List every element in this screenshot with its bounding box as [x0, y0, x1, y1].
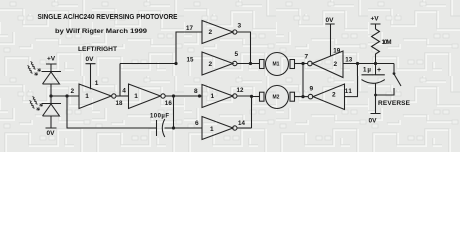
svg-text:2: 2: [71, 88, 75, 95]
wire D2 to 0V: [46, 116, 57, 128]
svg-text:8: 8: [194, 88, 198, 95]
node: cap/gateD tie: [172, 126, 175, 129]
wire +V to resistor: [371, 24, 381, 29]
feedback down wire from node 2: [67, 96, 156, 128]
svg-text:12: 12: [237, 87, 245, 94]
svg-text:10M: 10M: [382, 39, 392, 46]
node: switch contact: [393, 72, 396, 75]
light arrow pair at D1: [28, 62, 41, 76]
wire cap to gate D input: [165, 127, 203, 129]
svg-text:2: 2: [332, 92, 336, 99]
node: M2 tap: [250, 95, 253, 98]
bubble gate D: [233, 126, 237, 130]
svg-text:+: +: [377, 67, 381, 74]
inverter gate E (pins 13,7) left-pointing: [312, 51, 343, 78]
capacitor 100uF curved plate: [162, 119, 165, 137]
svg-text:2: 2: [209, 29, 213, 36]
light arrow pair at D2: [30, 97, 43, 111]
node: RC tie: [374, 62, 377, 65]
node: photodiode junction: [49, 94, 52, 97]
svg-text:4: 4: [122, 88, 126, 95]
inverter gate1 (pins 2,18): [79, 84, 111, 109]
wire node2 to gate1 input: [51, 95, 79, 97]
wire 14 up to M2 row: [237, 127, 251, 129]
svg-text:15: 15: [187, 57, 195, 64]
node: 15/17 tie: [174, 62, 177, 65]
junction dots: [49, 62, 395, 130]
svg-text:1: 1: [211, 93, 215, 100]
svg-text:17: 17: [186, 25, 194, 32]
svg-text:11: 11: [345, 88, 353, 95]
motor M1 body: [266, 53, 289, 76]
inverter gate F (pins 11,9) left-pointing: [313, 84, 345, 110]
svg-text:18: 18: [116, 100, 124, 107]
svg-text:0V: 0V: [369, 117, 378, 124]
svg-text:1: 1: [95, 80, 99, 87]
wire 13 from gate E: [343, 63, 394, 65]
svg-text:14: 14: [238, 120, 246, 127]
bubble gate2 output: [161, 94, 165, 98]
svg-text:5: 5: [235, 51, 239, 58]
svg-text:16: 16: [165, 100, 173, 107]
wire cap to 0V tick: [371, 83, 381, 113]
node: M1 common: [301, 62, 304, 65]
svg-text:REVERSE: REVERSE: [378, 100, 411, 107]
bubble gate1 output: [112, 94, 116, 98]
svg-text:7: 7: [305, 54, 309, 61]
svg-text:0V: 0V: [86, 56, 95, 63]
wire 0V to pin 19 enable: [325, 24, 334, 57]
node: gate B output / M1: [249, 62, 252, 65]
node: switch bottom / 0V: [374, 94, 377, 97]
capacitor 1u plus plate: [362, 64, 385, 75]
svg-text:+V: +V: [371, 16, 380, 23]
switch lever: [394, 74, 401, 86]
bubble gate B: [233, 61, 237, 65]
svg-text:13: 13: [345, 56, 353, 63]
svg-text:1µ: 1µ: [363, 67, 371, 74]
svg-text:2: 2: [334, 61, 338, 68]
svg-text:1: 1: [134, 93, 138, 100]
svg-text:1: 1: [210, 126, 214, 133]
node: feedback tap at pin2: [65, 94, 68, 97]
inverter gate B (pins 15,5): [202, 52, 233, 75]
svg-text:0V: 0V: [47, 130, 56, 137]
svg-text:1: 1: [85, 93, 89, 100]
svg-text:100µF: 100µF: [150, 114, 169, 120]
wire M2 to gate F bubble: [295, 96, 309, 98]
wire 3 down to M1 row: [237, 32, 251, 64]
svg-text:by Wilf Rigter March 1999: by Wilf Rigter March 1999: [55, 28, 147, 35]
vertical tie between motor commons x=305: [302, 64, 304, 97]
switch bottom wire: [376, 88, 395, 95]
svg-text:6: 6: [195, 120, 199, 127]
svg-text:M1: M1: [273, 62, 280, 68]
inverter gate A (pins 17,3): [202, 21, 233, 44]
svg-text:+V: +V: [47, 55, 56, 62]
svg-text:SINGLE AC/HC240 REVERSING PHOT: SINGLE AC/HC240 REVERSING PHOTOVORE: [38, 14, 178, 21]
svg-text:9: 9: [310, 86, 314, 93]
bubble gate F: [308, 94, 313, 99]
resistor 10M zigzag: [372, 29, 380, 64]
feedback tap vertical x=120 up to y63.5: [120, 64, 176, 97]
inverter gate D (pins 6,14): [202, 117, 233, 140]
wire 16 node to gate C input: [165, 95, 202, 97]
svg-text:2: 2: [209, 61, 213, 68]
inverter gate2 (pins 4,16): [129, 84, 161, 109]
motor M1 right lug: [290, 60, 295, 69]
switch reverse: top stub: [393, 64, 395, 73]
node: M2 common: [301, 95, 304, 98]
wire 5 to M1: [237, 63, 260, 65]
wire 18 to gate2 input: [116, 95, 128, 97]
photodiode D1: [42, 72, 62, 85]
motor M2 right lug: [290, 92, 295, 101]
wire D1 to junction: [50, 84, 52, 104]
node: gate C input: [198, 94, 201, 97]
node: 11/13 tie: [356, 62, 359, 65]
node: 16/cap tie: [172, 94, 175, 97]
bubble gate C: [233, 94, 237, 98]
motor M2 left lug: [260, 92, 265, 101]
wire M1 to gate E bubble: [295, 63, 308, 65]
wire M2 tap: [252, 96, 260, 98]
photodiode D2: [42, 104, 62, 117]
svg-text:19: 19: [333, 48, 341, 55]
inverter gate C (pins 8,12): [202, 85, 233, 108]
svg-text:M2: M2: [273, 95, 280, 101]
motor M1 left lug: [260, 60, 265, 69]
bubble gate A: [233, 30, 237, 34]
wire 12 down to M2 row: [237, 96, 251, 128]
gate A input wires 17: [176, 32, 202, 64]
wire 0V to pin1 enable: [86, 64, 96, 90]
capacitor 100uF flat plate: [156, 120, 158, 136]
capacitor 1u curved plate: [362, 80, 385, 84]
svg-text:LEFT/RIGHT: LEFT/RIGHT: [78, 46, 117, 53]
vertical tie 16-node to feedback wire x=173.5: [173, 96, 175, 128]
svg-text:0V: 0V: [326, 17, 335, 24]
motor M2 body: [266, 86, 289, 109]
bubble gate E: [308, 61, 313, 66]
wire +V to photodiode D1: [46, 64, 57, 72]
wire 11 from gate F up to 13 node: [345, 64, 358, 97]
svg-text:3: 3: [238, 23, 242, 30]
